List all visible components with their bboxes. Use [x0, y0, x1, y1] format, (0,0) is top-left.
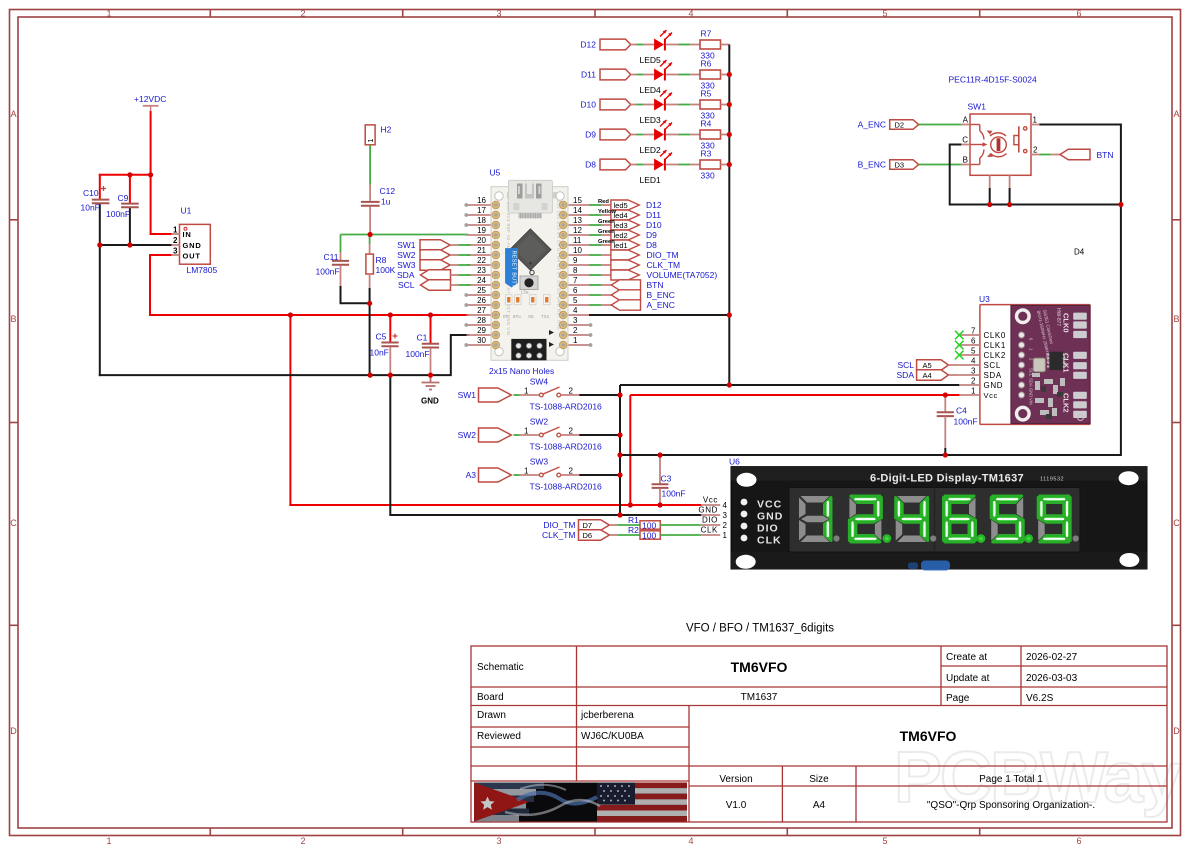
- svg-text:LED5: LED5: [640, 55, 662, 65]
- wire LED to R3: [666, 164, 700, 166]
- svg-text:R4: R4: [701, 119, 712, 129]
- svg-text:A: A: [1173, 109, 1179, 119]
- svg-text:Drawn: Drawn: [477, 710, 506, 721]
- wire switch SW3 pin2: [579, 474, 620, 476]
- capacitor C5: [381, 334, 398, 347]
- wire D10 to LED: [631, 104, 654, 106]
- LED LED4: [640, 60, 673, 95]
- net flag SCL/A5: [897, 360, 959, 370]
- svg-text:1119532: 1119532: [1040, 477, 1064, 483]
- svg-text:2026-03-03: 2026-03-03: [1026, 673, 1078, 684]
- svg-text:4: 4: [723, 501, 728, 510]
- resistor R6 330: [700, 59, 729, 91]
- svg-text:6: 6: [971, 337, 976, 346]
- svg-text:SW3: SW3: [530, 457, 549, 467]
- svg-text:Page 1 Total 1: Page 1 Total 1: [979, 774, 1043, 785]
- svg-text:100nF: 100nF: [106, 209, 130, 219]
- svg-text:3: 3: [971, 367, 976, 376]
- svg-text:1: 1: [524, 427, 529, 436]
- svg-text:3: 3: [573, 316, 578, 325]
- wire C10 top: [99, 175, 101, 199]
- svg-text:1: 1: [524, 467, 529, 476]
- svg-text:CLK0: CLK0: [1062, 313, 1071, 333]
- svg-text:D6: D6: [583, 531, 593, 540]
- svg-text:GND: GND: [984, 381, 1004, 390]
- svg-text:1: 1: [106, 836, 111, 845]
- svg-text:Vcc: Vcc: [703, 496, 718, 505]
- svg-text:DIO: DIO: [757, 523, 779, 535]
- wire nano pin4 to gnd bus: [589, 314, 729, 316]
- svg-text:100K: 100K: [376, 265, 396, 275]
- svg-text:17: 17: [477, 206, 486, 215]
- svg-text:18: 18: [477, 216, 486, 225]
- svg-text:LED2: LED2: [640, 145, 662, 155]
- svg-text:D11: D11: [646, 210, 661, 220]
- svg-text:25: 25: [477, 286, 486, 295]
- svg-text:SW1: SW1: [397, 240, 416, 250]
- svg-text:6: 6: [1076, 836, 1081, 845]
- svg-text:R8: R8: [376, 255, 387, 265]
- svg-text:VCC: VCC: [757, 499, 782, 511]
- svg-text:SW2: SW2: [530, 417, 549, 427]
- svg-text:TM6VFO: TM6VFO: [731, 659, 788, 675]
- svg-text:B: B: [963, 156, 968, 165]
- svg-text:1: 1: [1033, 116, 1038, 125]
- net flag SW2 (nano left): [397, 250, 470, 261]
- svg-text:D8: D8: [585, 160, 596, 170]
- wire D9 to LED: [631, 134, 654, 136]
- wire U1 out to rail: [150, 255, 171, 315]
- net flag CLK_TM/D6: [542, 530, 609, 541]
- svg-text:BTN: BTN: [647, 280, 664, 290]
- flags image (Cuba/USA): [474, 783, 687, 822]
- net flag led4/D11 (nano right): [590, 209, 662, 220]
- svg-text:11: 11: [573, 236, 582, 245]
- display digits 12.46.5.9: [799, 496, 840, 542]
- svg-text:CLK: CLK: [757, 535, 782, 547]
- svg-text:1u: 1u: [381, 197, 391, 207]
- svg-text:GND: GND: [421, 397, 439, 406]
- svg-text:Board: Board: [477, 692, 504, 703]
- svg-text:D8: D8: [646, 240, 657, 250]
- title block text: [477, 652, 1095, 811]
- svg-text:13: 13: [573, 216, 582, 225]
- wire C1 top: [430, 315, 432, 343]
- svg-text:LM7805: LM7805: [187, 265, 218, 275]
- svg-text:IN: IN: [183, 230, 192, 239]
- capacitor C9: [121, 204, 139, 208]
- svg-text:VFO / BFO / TM1637_6digits: VFO / BFO / TM1637_6digits: [686, 623, 834, 635]
- svg-text:2: 2: [723, 521, 728, 530]
- svg-text:20: 20: [477, 236, 486, 245]
- svg-text:21: 21: [477, 246, 486, 255]
- wire green row19: [341, 234, 469, 236]
- svg-text:L5a: L5a: [521, 290, 529, 295]
- svg-text:4: 4: [688, 9, 693, 19]
- svg-text:2x15 Nano Holes: 2x15 Nano Holes: [489, 366, 554, 376]
- svg-text:3: 3: [496, 9, 501, 19]
- switch SW3 TS-1088-ARD2016: [514, 457, 603, 492]
- rotary encoder SW1 PEC11R: [949, 75, 1040, 176]
- svg-text:C4: C4: [956, 406, 967, 416]
- svg-text:100nF: 100nF: [662, 489, 686, 499]
- svg-text:C: C: [10, 518, 17, 528]
- svg-text:Update at: Update at: [946, 673, 990, 684]
- svg-text:TS-1088-ARD2016: TS-1088-ARD2016: [530, 482, 603, 492]
- regulator U1 LM7805: [171, 206, 217, 276]
- svg-text:C3: C3: [661, 474, 672, 484]
- svg-text:DIO: DIO: [702, 516, 718, 525]
- svg-text:C12: C12: [380, 186, 396, 196]
- power flag +12VDC: [134, 94, 166, 112]
- display U6 pins: [698, 457, 740, 541]
- svg-text:5: 5: [882, 836, 887, 845]
- svg-text:100: 100: [642, 531, 656, 541]
- svg-text:D12: D12: [646, 200, 662, 210]
- display module U6 TM1637 image: [731, 467, 1147, 569]
- wire switch bus: [619, 385, 621, 515]
- svg-text:C10: C10: [83, 188, 99, 198]
- svg-text:R3: R3: [701, 149, 712, 159]
- svg-text:2: 2: [573, 326, 578, 335]
- svg-text:26: 26: [477, 296, 486, 305]
- svg-text:B: B: [1173, 314, 1179, 324]
- svg-text:A_ENC: A_ENC: [858, 120, 886, 130]
- wire gnd row to U3: [620, 384, 960, 386]
- net flag DIO_TM (nano right): [590, 250, 679, 260]
- capacitor C1: [422, 344, 439, 348]
- junction dots (power section): [97, 172, 433, 378]
- svg-text:27: 27: [477, 306, 486, 315]
- svg-text:D9: D9: [646, 230, 657, 240]
- svg-text:19: 19: [477, 226, 486, 235]
- svg-text:SDA: SDA: [897, 370, 915, 380]
- svg-text:C: C: [962, 136, 968, 145]
- svg-text:A: A: [963, 116, 969, 125]
- resistor R8: [366, 235, 396, 376]
- svg-text:SDA: SDA: [1029, 378, 1034, 387]
- svg-text:1: 1: [368, 139, 375, 143]
- svg-text:D2: D2: [895, 120, 905, 129]
- wire H2 to C12: [369, 145, 371, 185]
- svg-text:PEC11R-4D15F-S0024: PEC11R-4D15F-S0024: [949, 75, 1037, 85]
- svg-text:7: 7: [971, 327, 976, 336]
- net flag SCL (nano left): [398, 280, 470, 291]
- net flag VOLUME(TA7052) (nano right): [590, 270, 718, 280]
- svg-text:V1.0: V1.0: [726, 800, 747, 811]
- net flag D8: [585, 159, 631, 170]
- svg-text:A_ENC: A_ENC: [647, 300, 675, 310]
- svg-text:6: 6: [573, 286, 578, 295]
- wire switch SW2 pin2: [579, 434, 620, 436]
- svg-text:U1: U1: [181, 206, 192, 216]
- svg-text:A5: A5: [923, 361, 932, 370]
- capacitor C3: [652, 455, 686, 505]
- wire +12V vertical: [150, 112, 152, 234]
- svg-text:8Tu: 8Tu: [513, 314, 521, 319]
- svg-text:Green: Green: [598, 239, 615, 245]
- wire encoder mount pins: [990, 175, 1010, 204]
- capacitor C12: [361, 202, 380, 206]
- wire +12V cap rail: [100, 174, 151, 176]
- svg-text:6: 6: [1076, 9, 1081, 19]
- svg-text:C5: C5: [376, 332, 387, 342]
- svg-text:SW4: SW4: [530, 377, 549, 387]
- svg-text:12: 12: [573, 226, 582, 235]
- svg-text:B: B: [10, 314, 16, 324]
- svg-text:GND: GND: [698, 506, 718, 515]
- header H2: [365, 125, 391, 145]
- svg-text:GND: GND: [757, 511, 783, 523]
- wire +5V rail: [150, 314, 468, 316]
- svg-text:Schematic: Schematic: [477, 662, 524, 673]
- svg-text:2: 2: [971, 377, 976, 386]
- svg-text:5: 5: [882, 9, 887, 19]
- wire D11 to LED: [631, 74, 654, 76]
- svg-text:3: 3: [723, 511, 728, 520]
- svg-text:led1: led1: [614, 241, 628, 250]
- svg-text:A3: A3: [466, 470, 477, 480]
- MCU module U5 Arduino Nano: [464, 168, 592, 377]
- net flag led1/D8 (nano right): [590, 239, 658, 250]
- svg-text:3: 3: [496, 836, 501, 845]
- wire C9 top: [129, 175, 131, 203]
- LED LED1: [640, 150, 673, 185]
- svg-text:330: 330: [701, 171, 715, 181]
- svg-text:C: C: [1173, 518, 1180, 528]
- svg-text:"QSO"-Qrp Sponsoring Organizat: "QSO"-Qrp Sponsoring Organization-.: [927, 800, 1095, 811]
- svg-text:led3: led3: [614, 221, 628, 230]
- svg-text:D11: D11: [581, 70, 596, 80]
- svg-text:CLK1: CLK1: [984, 341, 1006, 350]
- resistor R7 330: [700, 29, 729, 61]
- svg-text:TS-1088-ARD2016: TS-1088-ARD2016: [530, 402, 603, 412]
- svg-text:D10: D10: [646, 220, 662, 230]
- svg-text:CLK_TM: CLK_TM: [542, 530, 576, 540]
- wire gnd to U6 row: [390, 375, 701, 515]
- svg-text:1: 1: [971, 387, 976, 396]
- net flag SW2: [458, 428, 512, 442]
- wire vcc row to U3: [630, 395, 960, 505]
- wire C10 bottom down: [99, 204, 101, 376]
- svg-text:TM6VFO: TM6VFO: [900, 728, 957, 744]
- wire +5V drop: [289, 315, 291, 505]
- svg-text:SW2: SW2: [397, 250, 416, 260]
- svg-text:28: 28: [477, 316, 486, 325]
- svg-text:SW1: SW1: [458, 390, 477, 400]
- svg-text:5: 5: [573, 296, 578, 305]
- wire LED cathode bus: [728, 45, 730, 386]
- svg-text:jcberberena: jcberberena: [580, 710, 634, 721]
- svg-text:SW1: SW1: [968, 102, 987, 112]
- wire encoder pin1: [1039, 125, 1121, 205]
- net flag SW1: [458, 388, 512, 402]
- svg-text:+12VDC: +12VDC: [134, 94, 166, 104]
- net flag A_ENC/D2: [858, 120, 962, 130]
- svg-text:100: 100: [642, 521, 656, 531]
- svg-text:10nF: 10nF: [370, 348, 389, 358]
- svg-text:VIN: VIN: [1029, 398, 1034, 405]
- wire to U1 pin1: [151, 233, 172, 235]
- resistor R5 330: [700, 89, 729, 121]
- LED LED3: [640, 90, 673, 125]
- svg-text:TX1: TX1: [541, 314, 550, 319]
- resistor R4 330: [700, 119, 729, 151]
- svg-text:Green: Green: [598, 219, 615, 225]
- svg-text:R7: R7: [701, 29, 712, 39]
- resistor R3 330: [700, 149, 729, 181]
- wire D8 to LED: [631, 164, 654, 166]
- net flag D9: [585, 129, 631, 140]
- U3 pins: [955, 327, 1006, 400]
- switch SW4 TS-1088-ARD2016: [514, 377, 603, 412]
- svg-text:BTN: BTN: [1097, 150, 1114, 160]
- net flag led2/D9 (nano right): [590, 229, 658, 240]
- svg-text:LED3: LED3: [640, 115, 662, 125]
- svg-text:2: 2: [300, 836, 305, 845]
- svg-text:D7: D7: [583, 521, 593, 530]
- svg-text:29: 29: [477, 326, 486, 335]
- svg-text:100nF: 100nF: [316, 267, 340, 277]
- capacitor C10: [92, 186, 110, 203]
- svg-text:Yellow: Yellow: [598, 209, 617, 215]
- svg-text:A: A: [10, 109, 16, 119]
- svg-text:10: 10: [573, 246, 582, 255]
- svg-text:SCL: SCL: [897, 360, 914, 370]
- svg-text:Green: Green: [598, 229, 615, 235]
- svg-text:A4: A4: [923, 371, 932, 380]
- svg-text:100nF: 100nF: [954, 417, 978, 427]
- wire LED to R4: [666, 134, 700, 136]
- svg-text:CLK0: CLK0: [984, 331, 1006, 340]
- svg-text:B_ENC: B_ENC: [858, 160, 886, 170]
- svg-text:D3: D3: [895, 160, 905, 169]
- svg-text:Version: Version: [719, 774, 752, 785]
- wire gnd lower row: [620, 205, 1121, 456]
- svg-text:HW-877: HW-877: [1055, 308, 1061, 326]
- svg-text:7: 7: [573, 276, 578, 285]
- svg-text:A4: A4: [813, 800, 826, 811]
- LED LED5: [640, 30, 673, 65]
- junction dots (middle): [617, 72, 948, 518]
- switch SW2 TS-1088-ARD2016: [514, 417, 603, 452]
- svg-text:CLK_TM: CLK_TM: [647, 260, 681, 270]
- svg-text:0T: 0T: [503, 314, 509, 319]
- svg-text:D9: D9: [585, 130, 596, 140]
- svg-text:Page: Page: [946, 693, 970, 704]
- svg-text:4: 4: [688, 836, 693, 845]
- svg-text:8: 8: [573, 266, 578, 275]
- net flag SW3 (nano left): [397, 260, 470, 271]
- svg-text:2: 2: [569, 427, 574, 436]
- net flag DIO_TM/D7: [543, 520, 609, 531]
- svg-text:Red: Red: [598, 199, 609, 205]
- LED LED2: [640, 120, 673, 155]
- net flag BTN (nano right): [590, 280, 664, 290]
- svg-text:10nF: 10nF: [81, 203, 100, 213]
- svg-text:6-Digit-LED Display-TM1637: 6-Digit-LED Display-TM1637: [870, 473, 1024, 485]
- svg-text:30: 30: [477, 336, 486, 345]
- svg-text:LED4: LED4: [640, 85, 662, 95]
- ground symbol: [422, 375, 440, 389]
- svg-text:TS-1088-ARD2016: TS-1088-ARD2016: [530, 442, 603, 452]
- svg-text:Reviewed: Reviewed: [477, 731, 521, 742]
- svg-text:14: 14: [573, 206, 582, 215]
- svg-text:SCL: SCL: [984, 361, 1001, 370]
- svg-text:D12: D12: [580, 40, 596, 50]
- svg-text:3: 3: [173, 247, 178, 256]
- svg-text:H2: H2: [381, 125, 392, 135]
- svg-text:U3: U3: [979, 294, 990, 304]
- svg-text:1: 1: [573, 336, 578, 345]
- svg-text:1: 1: [524, 387, 529, 396]
- resistor R1 100: [609, 515, 701, 531]
- svg-text:2026-02-27: 2026-02-27: [1026, 652, 1078, 663]
- svg-text:GND: GND: [1029, 388, 1034, 397]
- svg-text:R6: R6: [701, 59, 712, 69]
- clock generator U3: [979, 294, 1090, 424]
- capacitor C4: [937, 395, 978, 455]
- svg-text:Vcc: Vcc: [984, 391, 998, 400]
- net flag D11: [581, 69, 631, 80]
- svg-text:5: 5: [971, 347, 976, 356]
- svg-text:1: 1: [106, 9, 111, 19]
- svg-text:SW2: SW2: [458, 430, 477, 440]
- svg-text:R1: R1: [628, 515, 639, 525]
- wire C5 top: [389, 315, 391, 342]
- svg-text:C11: C11: [324, 252, 339, 262]
- svg-text:D4: D4: [1074, 248, 1085, 257]
- svg-text:CLK2: CLK2: [984, 351, 1006, 360]
- title block table: [471, 646, 1167, 822]
- svg-text:D: D: [10, 726, 17, 736]
- wire switch SW4 pin2: [579, 394, 620, 396]
- svg-text:2: 2: [173, 236, 178, 245]
- svg-text:23: 23: [477, 266, 486, 275]
- svg-text:9: 9: [573, 256, 578, 265]
- svg-text:4: 4: [971, 357, 976, 366]
- svg-text:2: 2: [300, 9, 305, 19]
- wire LED to R6: [666, 74, 700, 76]
- wire LED to R7: [666, 44, 700, 46]
- svg-text:SDA: SDA: [397, 270, 415, 280]
- svg-text:2: 2: [569, 387, 574, 396]
- svg-text:U5: U5: [490, 168, 501, 178]
- svg-text:LED1: LED1: [640, 175, 662, 185]
- svg-text:B_ENC: B_ENC: [647, 290, 675, 300]
- svg-text:15: 15: [573, 196, 582, 205]
- svg-text:R5: R5: [701, 89, 712, 99]
- svg-text:SW3: SW3: [397, 260, 416, 270]
- svg-text:1: 1: [173, 226, 178, 235]
- net flag SW1 (nano left): [397, 240, 470, 251]
- svg-text:WJ6C/KU0BA: WJ6C/KU0BA: [581, 731, 644, 742]
- net flag CLK_TM (nano right): [590, 260, 681, 270]
- net flag D12: [580, 39, 630, 50]
- svg-text:100nF: 100nF: [406, 349, 430, 359]
- net flag led5/D12 (nano right): [590, 199, 662, 210]
- svg-text:DIO_TM: DIO_TM: [543, 520, 575, 530]
- svg-text:24: 24: [477, 276, 486, 285]
- net flag BTN: [1039, 149, 1113, 160]
- wire +5V U6 Vcc row: [290, 504, 701, 506]
- svg-text:C1: C1: [417, 333, 428, 343]
- svg-text:C9: C9: [118, 193, 129, 203]
- net flag B_ENC (nano right): [590, 290, 675, 300]
- net flag B_ENC/D3: [858, 160, 962, 170]
- svg-text:TM1637: TM1637: [741, 692, 778, 703]
- svg-text:Create at: Create at: [946, 652, 987, 663]
